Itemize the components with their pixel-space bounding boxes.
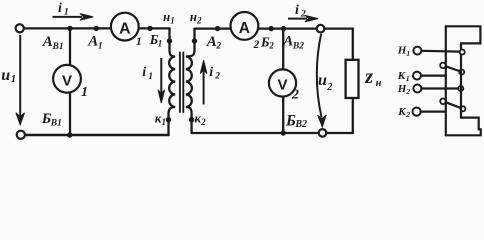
loop D bbox=[458, 86, 463, 91]
node Б1 dot bbox=[147, 26, 152, 31]
svg-text:2: 2 bbox=[253, 39, 260, 51]
transformer core line 1 bbox=[179, 53, 181, 113]
svg-text:2: 2 bbox=[214, 71, 220, 81]
loop B bbox=[440, 63, 446, 69]
terminal Н1 bbox=[413, 47, 421, 55]
terminal К2 bbox=[413, 108, 421, 116]
ammeter A2 bbox=[231, 12, 259, 40]
svg-text:u: u bbox=[318, 72, 327, 89]
transformer core line 2 bbox=[182, 53, 184, 113]
node к1 dot bbox=[166, 117, 171, 122]
terminal Н2 bbox=[413, 85, 421, 93]
svg-text:2: 2 bbox=[405, 87, 410, 96]
svg-text:1: 1 bbox=[64, 8, 69, 18]
svg-text:1: 1 bbox=[158, 39, 163, 49]
svg-text:V: V bbox=[277, 77, 287, 94]
node н2 dot bbox=[192, 38, 197, 43]
svg-text:u: u bbox=[1, 67, 10, 84]
lead wire Н1 bbox=[422, 50, 460, 53]
svg-text:2: 2 bbox=[405, 110, 410, 119]
voltmeter V2 stem top bbox=[282, 29, 284, 70]
node Б2 dot bbox=[269, 26, 274, 31]
node БВ2 dot bbox=[281, 130, 286, 135]
svg-text:1: 1 bbox=[81, 85, 88, 100]
voltage arrow u1 bbox=[16, 35, 25, 125]
svg-text:1: 1 bbox=[11, 74, 16, 85]
svg-text:2: 2 bbox=[200, 117, 206, 127]
loop F bbox=[460, 106, 465, 111]
labels: main circuit bbox=[1, 1, 381, 130]
lead wire Н2 bbox=[422, 87, 459, 89]
current arrow i1 into winding (down) bbox=[158, 58, 165, 103]
svg-text:A: A bbox=[239, 20, 250, 37]
terminal top-left bbox=[16, 24, 24, 32]
lead wire К2 bbox=[421, 110, 446, 112]
svg-text:К: К bbox=[397, 70, 406, 82]
wire top-right bbox=[195, 29, 353, 60]
svg-text:А: А bbox=[87, 34, 98, 50]
svg-text:н: н bbox=[376, 78, 382, 89]
svg-text:2: 2 bbox=[196, 16, 202, 26]
svg-text:К: К bbox=[397, 106, 406, 118]
transformer secondary lead and winding W2 bbox=[186, 29, 195, 133]
svg-text:1: 1 bbox=[148, 72, 153, 82]
node АВ1 dot bbox=[67, 26, 72, 31]
diagonal E-F bbox=[446, 102, 461, 108]
voltmeter V2 stem bottom bbox=[282, 97, 284, 134]
node к2 dot bbox=[189, 117, 194, 122]
loop A bbox=[460, 50, 465, 55]
node АВ2 dot bbox=[281, 26, 286, 31]
winding bottom flag bbox=[446, 118, 481, 136]
svg-text:2: 2 bbox=[215, 42, 221, 52]
wire top-left bbox=[24, 27, 170, 29]
svg-text:1: 1 bbox=[162, 117, 167, 127]
svg-text:1: 1 bbox=[406, 74, 410, 83]
svg-text:1: 1 bbox=[406, 49, 410, 58]
node А2 dot bbox=[215, 26, 220, 31]
terminal bottom-left bbox=[17, 131, 25, 139]
svg-text:А: А bbox=[42, 34, 53, 50]
wire bottom-right bbox=[192, 98, 353, 133]
winding top flag bbox=[446, 26, 481, 49]
svg-text:1: 1 bbox=[98, 42, 103, 52]
diagonal B-C bbox=[446, 66, 459, 71]
svg-text:i: i bbox=[58, 1, 62, 16]
voltmeter V2 bbox=[269, 69, 296, 96]
svg-text:V: V bbox=[62, 72, 72, 89]
node А1 dot bbox=[94, 26, 99, 31]
load resistor Zн bbox=[346, 60, 359, 98]
svg-text:Б: Б bbox=[285, 112, 296, 129]
node н1 dot bbox=[167, 38, 172, 43]
terminal bottom-right bbox=[319, 129, 327, 137]
svg-text:i: i bbox=[209, 65, 213, 80]
node БВ1 dot bbox=[67, 132, 72, 137]
svg-text:z: z bbox=[364, 66, 373, 88]
svg-text:2: 2 bbox=[326, 82, 332, 93]
loop E bbox=[440, 99, 446, 105]
svg-text:i: i bbox=[295, 3, 299, 18]
svg-text:А: А bbox=[282, 34, 293, 50]
ammeter A1 bbox=[111, 13, 139, 41]
transformer primary lead and winding W1 bbox=[169, 28, 176, 135]
svg-text:н: н bbox=[163, 9, 170, 24]
svg-text:2: 2 bbox=[300, 10, 306, 20]
svg-text:В1: В1 bbox=[50, 118, 62, 128]
svg-text:В2: В2 bbox=[294, 119, 307, 130]
terminal К1 bbox=[413, 72, 421, 80]
winding right vertical bbox=[460, 55, 462, 118]
svg-text:1: 1 bbox=[136, 36, 142, 48]
current arrow i2 top bbox=[288, 15, 318, 22]
svg-text:2: 2 bbox=[268, 40, 274, 50]
current arrow i1 top bbox=[53, 14, 94, 21]
svg-text:В1: В1 bbox=[52, 42, 64, 52]
svg-text:1: 1 bbox=[170, 16, 175, 26]
voltmeter V1 stem bottom wire bbox=[69, 93, 71, 135]
svg-text:i: i bbox=[142, 65, 146, 80]
svg-text:A: A bbox=[119, 21, 130, 38]
winding left vertical bbox=[445, 26, 447, 135]
lead wire К1 bbox=[421, 74, 446, 76]
wire bottom-left bbox=[25, 134, 169, 137]
voltmeter V1 stem top wire bbox=[69, 28, 71, 66]
voltage arrow u2 bbox=[317, 34, 326, 127]
svg-text:2: 2 bbox=[291, 88, 299, 103]
svg-text:А: А bbox=[206, 34, 217, 50]
voltmeter V1 bbox=[53, 65, 81, 93]
svg-text:н: н bbox=[190, 9, 197, 24]
terminal top-right bbox=[317, 25, 325, 33]
current arrow i2 out of winding (up) bbox=[200, 60, 207, 104]
loop C bbox=[459, 70, 464, 75]
svg-text:В2: В2 bbox=[292, 42, 304, 52]
